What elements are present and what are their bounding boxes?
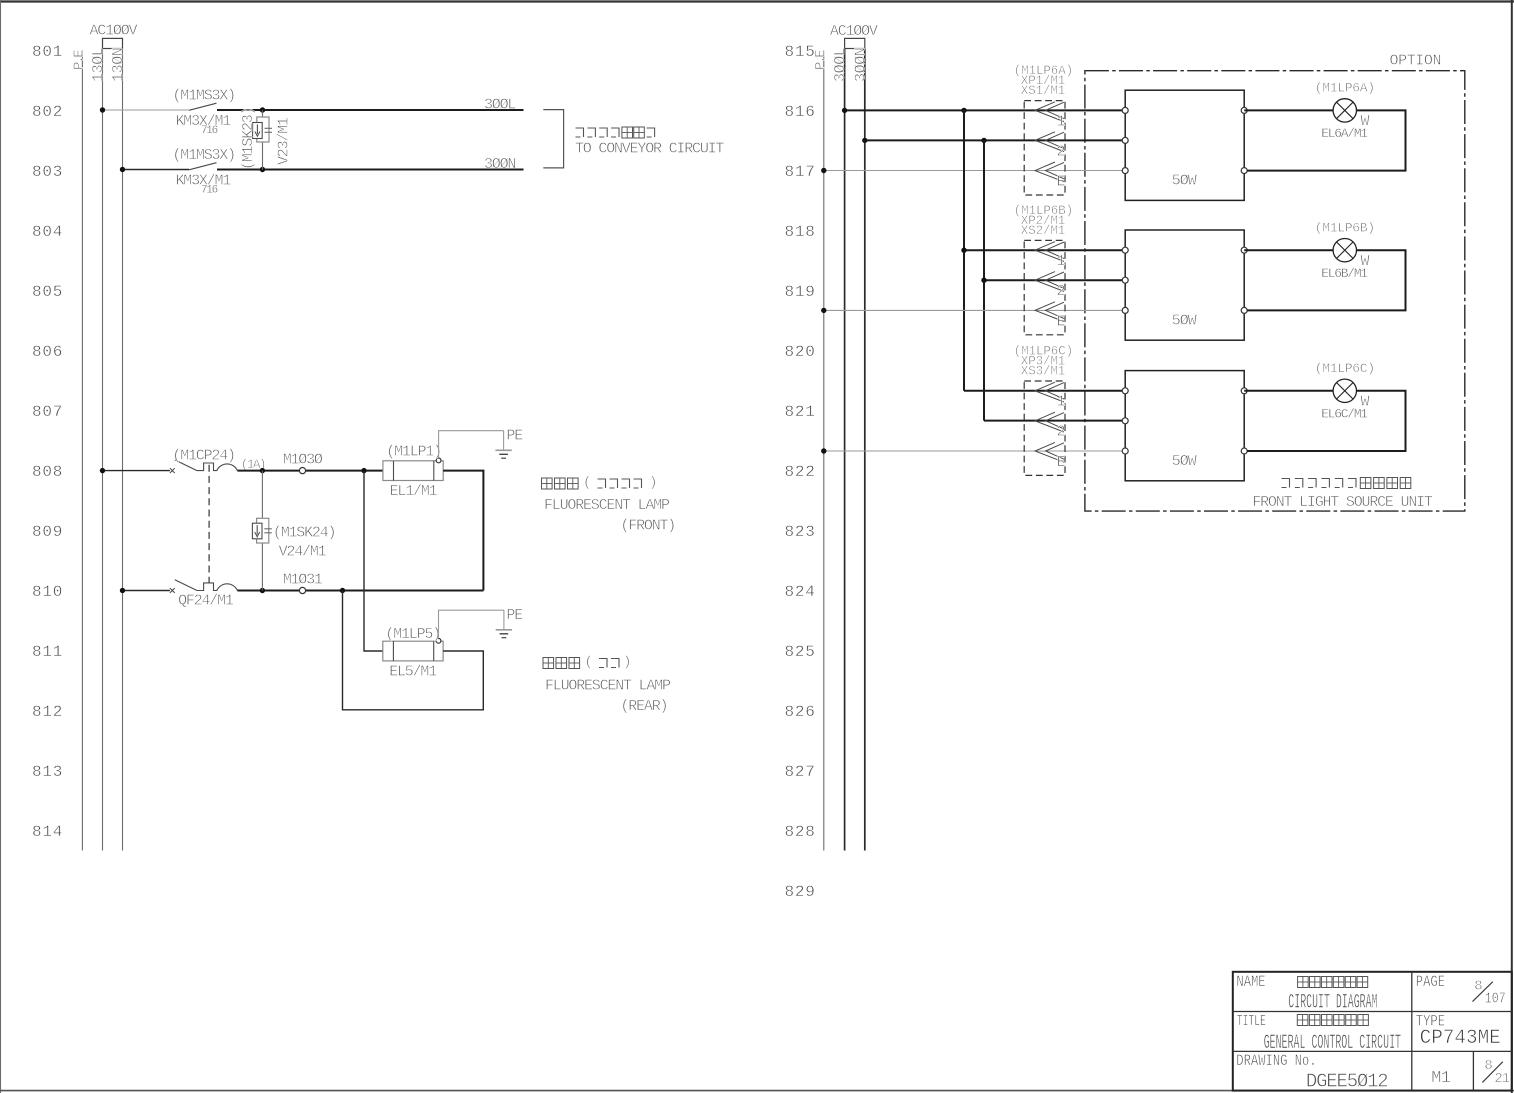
svg-text:809: 809 — [32, 523, 63, 541]
title block frame — [1233, 972, 1512, 1091]
wire 802 to 300L — [217, 109, 524, 111]
wire lamp M1LP6A return — [1247, 110, 1405, 170]
svg-text:(: ( — [583, 475, 590, 491]
svg-text:AC1ØØV: AC1ØØV — [90, 22, 138, 39]
connector pin 1 chevrons — [1035, 382, 1064, 402]
junction 810/EL5-return — [340, 588, 345, 593]
svg-text:820: 820 — [785, 343, 816, 361]
label fluorescent lamp (rear) JP — [543, 658, 580, 669]
svg-text:821: 821 — [785, 403, 816, 421]
svg-text:815: 815 — [785, 43, 816, 61]
connector pin 1 chevrons — [1035, 102, 1064, 122]
svg-text:NAME: NAME — [1236, 974, 1265, 992]
unit C wires — [964, 390, 1122, 392]
wire 802 left segment — [103, 109, 190, 111]
svg-text:818: 818 — [785, 223, 816, 241]
page number 8/107 — [1473, 979, 1506, 1009]
svg-text:GENERAL CONTROL CIRCUIT: GENERAL CONTROL CIRCUIT — [1264, 1032, 1402, 1055]
50W terminals — [1122, 107, 1247, 173]
name JP circuit diagram — [1298, 977, 1368, 988]
svg-text:716: 716 — [201, 125, 218, 137]
unit A wires — [845, 109, 1123, 111]
breaker mechanical link dashed — [208, 465, 210, 584]
svg-text:5ØW: 5ØW — [1172, 313, 1197, 330]
wire 808 from 130L — [103, 470, 170, 472]
svg-text:(M1SK23): (M1SK23) — [240, 108, 257, 170]
svg-text:21: 21 — [1494, 1071, 1509, 1087]
svg-text:828: 828 — [785, 823, 816, 841]
svg-text:812: 812 — [32, 703, 63, 721]
svg-text:817: 817 — [785, 163, 816, 181]
svg-text:(M1CP24): (M1CP24) — [172, 447, 234, 464]
connector pin E chevrons — [1035, 162, 1064, 182]
svg-text:827: 827 — [785, 763, 816, 781]
svg-text:(M1SK24): (M1SK24) — [273, 524, 335, 541]
svg-text:CIRCUIT DIAGRAM: CIRCUIT DIAGRAM — [1288, 991, 1377, 1014]
svg-text:804: 804 — [32, 223, 63, 241]
junction 810/M1SK24 — [260, 588, 265, 593]
svg-text:807: 807 — [32, 403, 63, 421]
connector pin E chevrons — [1035, 442, 1064, 462]
svg-text:107: 107 — [1485, 991, 1506, 1008]
lamp M1LP6A EL6A/M1 — [1333, 99, 1356, 122]
svg-text:M1Ø3Ø: M1Ø3Ø — [283, 452, 323, 469]
50W terminals — [1122, 388, 1247, 454]
wire EL5 return loop — [343, 591, 484, 710]
svg-text:E: E — [1057, 313, 1066, 330]
right bus bracket — [845, 38, 865, 48]
junction 130L/802 — [100, 107, 105, 112]
connector XP1/M1/XS1/M1 dashed box — [1024, 101, 1065, 195]
svg-text:2: 2 — [1057, 283, 1065, 300]
wire lamp M1LP6B return — [1247, 250, 1405, 310]
terminal M1031 — [299, 587, 305, 593]
title JP general control circuit — [1297, 1015, 1368, 1026]
wire 50W to lamp EL6B/M1 — [1244, 249, 1333, 251]
svg-text:EL6C/M1: EL6C/M1 — [1321, 407, 1368, 422]
svg-text:3ØØL: 3ØØL — [832, 47, 849, 82]
wire P.E bus (right) — [823, 50, 825, 850]
svg-text:): ) — [623, 655, 630, 671]
svg-text:801: 801 — [32, 43, 63, 61]
svg-text:(: ( — [585, 655, 592, 671]
connector XP3/M1/XS3/M1 dashed box — [1024, 381, 1065, 475]
svg-text:(M1LP1): (M1LP1) — [386, 444, 441, 461]
svg-text:M1Ø31: M1Ø31 — [283, 572, 323, 589]
wire 50W to lamp EL6C/M1 — [1244, 390, 1333, 392]
svg-text:CP743ME: CP743ME — [1420, 1027, 1501, 1049]
svg-text:EL1/M1: EL1/M1 — [390, 483, 438, 500]
svg-text:V24/M1: V24/M1 — [279, 544, 327, 561]
sheet fraction 8/21 — [1482, 1058, 1509, 1087]
junction 130N/810 — [120, 588, 125, 593]
svg-text:OPTION: OPTION — [1390, 53, 1442, 70]
svg-text:3ØØL: 3ØØL — [484, 96, 516, 113]
svg-text:816: 816 — [785, 103, 816, 121]
svg-text:825: 825 — [785, 643, 816, 661]
svg-text:803: 803 — [32, 163, 63, 181]
svg-text:826: 826 — [785, 703, 816, 721]
svg-text:FLUORESCENT LAMP: FLUORESCENT LAMP — [544, 497, 670, 514]
svg-text:XS2/M1: XS2/M1 — [1021, 224, 1065, 238]
svg-text:DGEE5Ø12: DGEE5Ø12 — [1306, 1071, 1388, 1093]
svg-text:13ØN: 13ØN — [110, 48, 127, 82]
connector pin 1 chevrons — [1035, 242, 1064, 262]
svg-text:EL6B/M1: EL6B/M1 — [1321, 266, 1368, 281]
terminal M1030 — [299, 468, 305, 474]
wire 810 from 130N — [123, 590, 170, 592]
wire 803 left segment — [123, 169, 190, 171]
wire 810 breaker to EL1 return — [237, 590, 483, 592]
svg-text:DRAWING No.: DRAWING No. — [1236, 1053, 1316, 1071]
svg-text:823: 823 — [785, 523, 816, 541]
svg-text:802: 802 — [32, 103, 63, 121]
svg-text:XS3/M1: XS3/M1 — [1021, 364, 1065, 378]
border frame — [0, 0, 1514, 2]
ground PE (EL1) — [495, 431, 511, 459]
svg-text:1: 1 — [1057, 253, 1066, 270]
junction 808/EL5-feed — [361, 468, 366, 473]
left bus bracket — [103, 38, 123, 48]
svg-text:3ØØN: 3ØØN — [852, 48, 869, 82]
svg-text:EL5/M1: EL5/M1 — [389, 663, 437, 680]
svg-text:E: E — [1057, 174, 1066, 191]
svg-text:13ØL: 13ØL — [90, 47, 107, 82]
svg-text:(M1LP6B): (M1LP6B) — [1315, 220, 1375, 235]
svg-text:824: 824 — [785, 583, 816, 601]
bracket to conveyor circuit — [543, 110, 563, 168]
svg-text:P.E: P.E — [72, 50, 88, 70]
wire EL1 return — [443, 471, 483, 591]
surge killer M1SK23 V23/M1 — [253, 110, 272, 170]
label front light source unit JP — [1282, 479, 1357, 488]
wire 808 breaker to lamp — [237, 470, 383, 472]
connector XP2/M1/XS2/M1 dashed box — [1024, 240, 1065, 334]
svg-text:TO CONVEYOR CIRCUIT: TO CONVEYOR CIRCUIT — [575, 141, 724, 158]
svg-text:811: 811 — [32, 643, 63, 661]
junction 802/M1SK23 — [260, 107, 265, 112]
label conveyor circuit JP — [576, 128, 620, 137]
svg-text:1: 1 — [1057, 394, 1066, 411]
wire EL5 feed — [364, 471, 383, 651]
unit M1LP6B 50W box — [1125, 230, 1244, 340]
svg-text:1: 1 — [1057, 113, 1066, 130]
svg-text:819: 819 — [785, 283, 816, 301]
svg-text:806: 806 — [32, 343, 63, 361]
fluorescent lamp M1LP5 — [383, 638, 443, 661]
PE wire from EL5 — [439, 610, 504, 637]
wire 130N bus — [122, 49, 124, 851]
wire 300L bus — [844, 49, 846, 851]
svg-text:FRONT LIGHT SOURCE UNIT: FRONT LIGHT SOURCE UNIT — [1252, 494, 1433, 511]
svg-text:814: 814 — [32, 823, 63, 841]
junction 130L/808 — [100, 468, 105, 473]
vertical feed 300L branch — [963, 110, 965, 390]
svg-text:2: 2 — [1057, 424, 1065, 441]
svg-text:P.E: P.E — [813, 50, 829, 70]
fluorescent lamp M1LP1 — [383, 458, 443, 481]
svg-text:(M1LP6C): (M1LP6C) — [1315, 361, 1375, 376]
svg-text:AC1ØØV: AC1ØØV — [830, 23, 878, 40]
svg-text:3ØØN: 3ØØN — [484, 156, 515, 173]
svg-text:810: 810 — [32, 583, 63, 601]
connector pin 2 chevrons — [1035, 132, 1064, 152]
svg-text:822: 822 — [785, 463, 816, 481]
wire 803 to 300N — [217, 169, 524, 171]
junction 130N/803 — [120, 167, 125, 172]
junction 803/M1SK23 — [260, 167, 265, 172]
connector pin 2 chevrons — [1035, 412, 1064, 432]
breaker QF24/M1 lower pole — [170, 580, 238, 593]
svg-text:2: 2 — [1057, 143, 1065, 160]
wire 130L bus — [102, 49, 104, 851]
lamp M1LP6C EL6C/M1 — [1333, 379, 1356, 402]
50W terminals — [1122, 247, 1247, 313]
wire P.E bus (left) — [81, 50, 83, 850]
svg-text:5ØW: 5ØW — [1172, 453, 1197, 470]
svg-text:813: 813 — [32, 763, 63, 781]
label fluorescent lamp (front) JP — [542, 478, 579, 489]
svg-text:8: 8 — [1474, 979, 1482, 995]
svg-text:PE: PE — [506, 428, 523, 445]
svg-text:TITLE: TITLE — [1237, 1013, 1266, 1030]
wire 300N bus — [864, 49, 866, 851]
svg-text:EL6A/M1: EL6A/M1 — [1321, 126, 1368, 141]
svg-text:8: 8 — [1484, 1058, 1492, 1074]
contact KM3X/M1 upper pole — [189, 103, 217, 110]
svg-text:QF24/M1: QF24/M1 — [178, 593, 234, 610]
PE wire from EL1 — [439, 431, 504, 458]
svg-text:(M1MS3X): (M1MS3X) — [173, 88, 235, 105]
svg-text:XS1/M1: XS1/M1 — [1021, 84, 1065, 98]
svg-text:(REAR): (REAR) — [621, 698, 668, 715]
surge killer M1SK24 V24/M1 — [252, 471, 271, 591]
svg-text:808: 808 — [32, 463, 63, 481]
unit M1LP6C 50W box — [1125, 371, 1244, 481]
svg-text:PAGE: PAGE — [1416, 974, 1445, 992]
connector pin 2 chevrons — [1035, 272, 1064, 292]
svg-text:805: 805 — [32, 283, 63, 301]
svg-text:829: 829 — [785, 883, 816, 901]
svg-text:V23/M1: V23/M1 — [276, 117, 293, 165]
svg-text:(M1LP5): (M1LP5) — [385, 626, 440, 643]
svg-text:PE: PE — [506, 607, 523, 624]
wire lamp M1LP6C return — [1247, 391, 1405, 451]
svg-text:E: E — [1057, 454, 1066, 471]
contact KM3X/M1 lower pole — [189, 163, 217, 170]
svg-text:(FRONT): (FRONT) — [621, 518, 676, 535]
wire 50W to lamp EL6A/M1 — [1244, 109, 1333, 111]
unit M1LP6A 50W box — [1125, 90, 1244, 200]
breaker M1CP24 upper pole — [170, 460, 238, 473]
svg-text:): ) — [649, 475, 656, 491]
svg-text:(M1LP6A): (M1LP6A) — [1315, 81, 1375, 96]
lamp M1LP6B EL6B/M1 — [1333, 239, 1356, 262]
unit B wires — [964, 249, 1122, 251]
svg-text:(M1MS3X): (M1MS3X) — [173, 147, 235, 164]
svg-text:M1: M1 — [1431, 1069, 1450, 1088]
ground PE (EL5) — [496, 610, 512, 638]
vertical feed 300N branch — [983, 140, 985, 420]
connector pin E chevrons — [1035, 302, 1064, 322]
svg-text:5ØW: 5ØW — [1172, 173, 1197, 190]
svg-text:FLUORESCENT LAMP: FLUORESCENT LAMP — [545, 678, 671, 695]
junction 808/M1SK24 — [260, 468, 265, 473]
svg-text:716: 716 — [201, 185, 218, 197]
OPTION enclosure — [1085, 71, 1465, 511]
